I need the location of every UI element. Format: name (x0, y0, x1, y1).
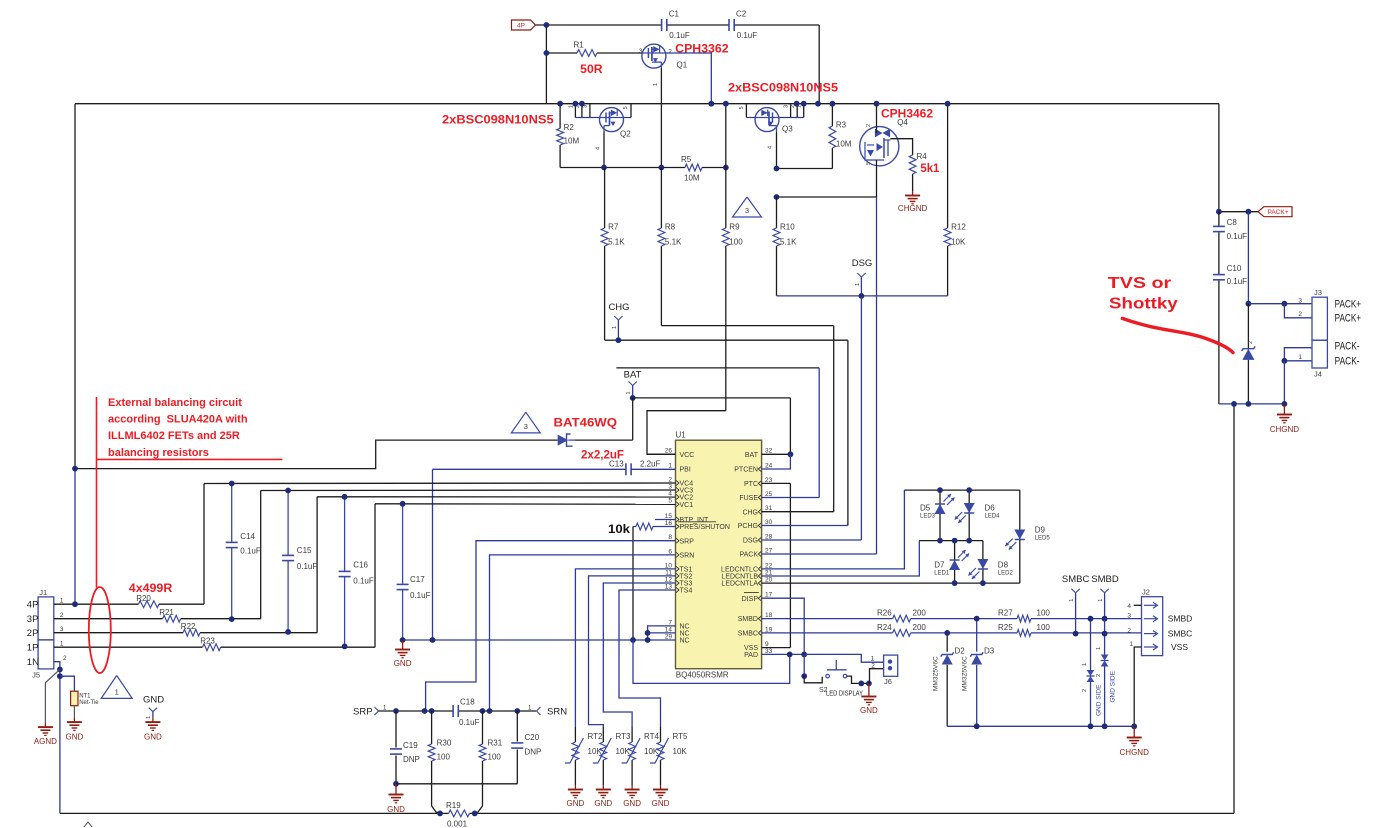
svg-text:DSG: DSG (852, 258, 873, 269)
svg-text:1: 1 (60, 597, 64, 604)
resistor R5 (681, 155, 702, 183)
wire CHG row (618, 339, 848, 341)
svg-text:R22: R22 (181, 622, 196, 631)
svg-text:1: 1 (1298, 354, 1302, 361)
wire C8 C10 column (1218, 212, 1220, 227)
svg-text:R24: R24 (877, 623, 892, 632)
svg-text:R31: R31 (488, 739, 503, 748)
wire SRN from chip (490, 555, 676, 711)
wire diode to BAT stub (576, 439, 633, 441)
svg-text:3: 3 (745, 206, 749, 215)
net stub GND mid (143, 695, 164, 720)
svg-text:4: 4 (768, 146, 774, 149)
thermistor RT2 (565, 732, 603, 763)
resistor R21 (159, 608, 181, 622)
wire TS1 (575, 569, 675, 727)
svg-text:31: 31 (765, 505, 773, 512)
wire C19 branch (395, 711, 397, 748)
resistor R4 (909, 152, 927, 174)
ground GND under RT3 (594, 785, 612, 808)
svg-text:4: 4 (1127, 603, 1131, 610)
wire D6 branch (968, 490, 970, 540)
annotation red vertical line (96, 397, 98, 588)
svg-text:J3: J3 (1314, 288, 1322, 297)
svg-text:1: 1 (115, 687, 119, 696)
svg-text:PACK-: PACK- (1335, 341, 1360, 353)
svg-text:GND: GND (860, 706, 878, 715)
svg-text:1: 1 (626, 391, 632, 394)
wire SMBC line (762, 632, 893, 634)
svg-text:0.1uF: 0.1uF (1227, 232, 1248, 241)
svg-text:1: 1 (60, 640, 64, 647)
svg-text:C8: C8 (1227, 218, 1238, 227)
svg-text:BQ4050RSMR: BQ4050RSMR (676, 671, 729, 680)
svg-text:R19: R19 (446, 801, 461, 810)
svg-text:TS2: TS2 (680, 574, 693, 581)
wire J2 pin1 VSS (1134, 647, 1141, 726)
IC U1 DISP overline (744, 592, 759, 594)
wire TS3 (603, 583, 675, 727)
resistor R27 (998, 609, 1050, 623)
wire DISP (762, 598, 805, 654)
LED D8 (968, 559, 1013, 579)
wire R3 column (831, 104, 833, 126)
annotation red ellipse (89, 587, 111, 673)
svg-text:LED5: LED5 (1035, 536, 1051, 542)
wire D3 drop (976, 619, 978, 652)
svg-text:2P: 2P (27, 628, 39, 639)
svg-text:CHG: CHG (742, 509, 758, 516)
resistor R2 (557, 123, 580, 146)
svg-text:GND: GND (394, 659, 412, 668)
wire 1P pin line (54, 646, 203, 648)
svg-text:VC4: VC4 (680, 481, 694, 488)
svg-text:J4: J4 (1314, 370, 1322, 379)
svg-text:R21: R21 (159, 608, 174, 617)
svg-text:D2: D2 (955, 647, 966, 656)
wire SRP from chip (426, 541, 676, 711)
svg-text:5: 5 (866, 162, 872, 165)
svg-text:1P: 1P (27, 643, 39, 654)
svg-text:TS3: TS3 (680, 581, 693, 588)
ground CHGND right (1133, 726, 1135, 733)
connector J3 (1298, 288, 1327, 340)
svg-text:VC2: VC2 (680, 495, 694, 502)
svg-text:LED4: LED4 (985, 514, 1001, 520)
wire Q3 source down (776, 132, 778, 169)
ground CHGND under R4 (898, 191, 928, 213)
svg-text:GND: GND (623, 799, 641, 808)
wire Q1 drain to bus (666, 53, 711, 104)
wire 1P stair (374, 504, 376, 647)
wire R8 column (660, 168, 662, 229)
svg-text:100: 100 (437, 753, 451, 762)
svg-text:TS4: TS4 (680, 588, 693, 595)
wire D2 drop (946, 633, 948, 652)
svg-text:NT1: NT1 (79, 693, 91, 699)
svg-text:Q2: Q2 (620, 130, 631, 139)
wire LEDCNTLA rail (762, 582, 1020, 584)
svg-text:3: 3 (60, 626, 64, 633)
svg-text:LEDCNTLC: LEDCNTLC (721, 567, 758, 574)
wire gnd row under C19 (396, 783, 517, 785)
wire R10 column (776, 197, 778, 228)
resistor R19 shunt (440, 801, 475, 828)
ground GND mid (144, 718, 162, 742)
net stub SRP (353, 706, 387, 718)
ground GND under C19 (395, 784, 397, 790)
svg-text:2: 2 (1248, 341, 1254, 344)
svg-text:0.1uF: 0.1uF (459, 718, 480, 727)
svg-text:0.1uF: 0.1uF (1227, 277, 1248, 286)
wire source node row (604, 167, 685, 169)
wire VC3 line (261, 489, 676, 492)
svg-text:2xBSC098N10NS5: 2xBSC098N10NS5 (442, 112, 554, 126)
wire LEDCNTLB (762, 541, 920, 576)
svg-text:R25: R25 (998, 623, 1013, 632)
svg-text:50R: 50R (580, 62, 603, 76)
wire RT3 column (602, 727, 604, 742)
wire main top bus (75, 103, 1219, 105)
diode D1 BAT46WQ (558, 434, 576, 446)
diode D4 TVS (1242, 341, 1256, 360)
svg-text:1: 1 (146, 716, 152, 719)
capacitor C19 (390, 741, 420, 764)
svg-text:AGND: AGND (34, 737, 57, 746)
wire RT4 column (631, 727, 633, 742)
capacitor C1 (662, 10, 690, 41)
capacitor C13 (609, 460, 661, 476)
wire to J3 pin2 (1284, 304, 1312, 318)
switch S2 LED DISPLAY (804, 660, 863, 698)
wire CHG pin (762, 511, 834, 513)
svg-text:R27: R27 (998, 609, 1013, 618)
svg-text:SMBD: SMBD (1168, 614, 1193, 624)
wire TVS to rail (1247, 360, 1249, 404)
svg-text:Q1: Q1 (677, 60, 688, 69)
svg-text:J1: J1 (39, 588, 47, 597)
ground GND under NT1 (66, 718, 84, 742)
svg-text:5: 5 (623, 106, 629, 109)
wire BAT stub to diode (632, 398, 634, 440)
svg-text:2: 2 (1127, 628, 1131, 635)
svg-text:D6: D6 (985, 504, 996, 513)
resistor R8 (658, 223, 682, 247)
wire 2P pin line (54, 632, 183, 634)
svg-text:DISP: DISP (742, 596, 759, 603)
wire D8 branch (982, 541, 984, 584)
svg-text:CHGND: CHGND (1120, 748, 1150, 757)
ground GND under RT5 (652, 785, 670, 808)
wire 10k drop (632, 527, 634, 641)
net flag PACK+ (1258, 207, 1292, 217)
wire R7 column (604, 168, 606, 229)
svg-text:2: 2 (1096, 674, 1102, 677)
wire D5 branch (939, 490, 941, 540)
symbol triangle 1 (101, 676, 132, 699)
svg-text:SRP: SRP (680, 538, 695, 545)
net tie NT1 (71, 691, 100, 706)
capacitor C18 (453, 698, 479, 728)
svg-text:PACK+: PACK+ (1267, 209, 1288, 216)
wire BTP stub (655, 519, 676, 521)
svg-text:LED DISPLAY: LED DISPLAY (826, 689, 863, 698)
wire PCHG pin drop (847, 340, 849, 525)
svg-text:CHGND: CHGND (898, 204, 928, 213)
svg-text:10K: 10K (644, 747, 659, 756)
wire 4P flag to bus (545, 25, 547, 104)
wire VC1 line (375, 503, 676, 506)
svg-text:GND SIDE: GND SIDE (1096, 684, 1103, 716)
wire C13 drop (432, 469, 434, 640)
wire bus to R5 right column (725, 104, 727, 168)
transistor Q3 (755, 108, 793, 134)
ground GND under S2 (868, 683, 870, 692)
svg-text:PTC: PTC (744, 481, 758, 488)
transistor Q3 pin bracket (779, 104, 804, 118)
wire LED top rail (904, 489, 1019, 491)
svg-text:BTP_INT: BTP_INT (680, 517, 710, 524)
svg-text:SMBC: SMBC (1062, 574, 1090, 585)
wire 4P stair (203, 484, 205, 605)
transistor Q4 (860, 118, 909, 166)
svg-text:10K: 10K (951, 238, 966, 247)
svg-text:R26: R26 (877, 609, 892, 618)
svg-text:LED2: LED2 (998, 571, 1014, 577)
svg-text:2.2uF: 2.2uF (640, 460, 661, 469)
svg-text:2x2,2uF: 2x2,2uF (581, 448, 624, 462)
wire R31 branch (482, 711, 484, 744)
svg-text:0.1uF: 0.1uF (737, 31, 758, 40)
svg-text:3P: 3P (27, 614, 39, 625)
svg-text:J6: J6 (884, 677, 892, 686)
wire R1 gate line (546, 52, 577, 54)
wire 4P to diode (75, 440, 558, 469)
wire NT1 to gnd (73, 706, 75, 718)
svg-text:ILLML6402 FETs and 25R: ILLML6402 FETs and 25R (108, 430, 240, 442)
svg-text:R9: R9 (729, 223, 740, 232)
ground AGND (34, 723, 57, 746)
wire PAD stub (762, 653, 805, 655)
svg-text:16: 16 (665, 520, 673, 527)
svg-text:C18: C18 (460, 698, 475, 707)
diode ESD1 GND SIDE (1082, 663, 1103, 716)
wire 3P pin line (54, 618, 163, 620)
wire SMBD line (762, 618, 893, 620)
wire Q3 drain riser (745, 104, 747, 118)
svg-text:C2: C2 (736, 10, 747, 19)
wire Q1 source down (660, 68, 662, 167)
svg-text:R3: R3 (836, 121, 847, 130)
LED D9 (1005, 526, 1050, 550)
wire DSG pin (762, 539, 862, 541)
svg-text:4P: 4P (517, 23, 525, 30)
svg-text:D7: D7 (934, 561, 945, 570)
wire VC2 line (317, 496, 675, 498)
symbol triangle 3 upper (733, 197, 762, 217)
wire BAT pin (762, 453, 791, 455)
wire DSG pin drop (860, 296, 862, 540)
resistor R1 (574, 41, 598, 57)
svg-text:2: 2 (1298, 311, 1302, 318)
svg-text:2: 2 (60, 612, 64, 619)
symbol triangle 3 lower (511, 412, 540, 433)
wire PTCEN pin (762, 454, 791, 469)
svg-text:RT4: RT4 (644, 732, 660, 741)
svg-text:C10: C10 (1227, 264, 1242, 273)
svg-text:4: 4 (596, 147, 602, 150)
svg-text:PACK-: PACK- (1335, 356, 1360, 368)
svg-text:Shottky: Shottky (1109, 296, 1178, 313)
svg-text:2: 2 (1082, 689, 1088, 692)
svg-text:R20: R20 (136, 594, 151, 603)
wire PBI line and C13 (433, 468, 626, 470)
wire CHG pin drop (833, 326, 835, 512)
svg-text:LEDCNTLB: LEDCNTLB (721, 574, 758, 581)
svg-text:3: 3 (639, 48, 643, 55)
svg-text:5: 5 (739, 106, 745, 109)
svg-text:GND: GND (594, 799, 612, 808)
svg-text:CHGND: CHGND (1270, 425, 1300, 434)
ground CHGND pack (1283, 404, 1285, 410)
svg-text:5.1K: 5.1K (665, 238, 682, 247)
wire SMBD esd drop (1090, 619, 1092, 670)
LED D7 (934, 550, 969, 577)
wire C20 branch (516, 711, 518, 742)
wire J6 pin2 (870, 669, 884, 684)
wire RT5 column (660, 727, 662, 742)
annotation red underline (97, 458, 283, 460)
wire right edge down to PACK+ (1218, 104, 1220, 212)
svg-text:1: 1 (668, 462, 672, 469)
resistor R9 (722, 223, 743, 247)
svg-text:4x499R: 4x499R (129, 581, 173, 595)
svg-text:VC1: VC1 (680, 502, 694, 509)
svg-text:SRP: SRP (353, 706, 373, 717)
labels J1 pins (27, 597, 67, 668)
svg-text:0.1uF: 0.1uF (240, 547, 261, 556)
svg-text:MM3Z5V6C: MM3Z5V6C (962, 656, 969, 691)
annotation text external balancing (108, 397, 248, 459)
svg-text:100: 100 (1037, 609, 1051, 618)
svg-text:2: 2 (871, 663, 875, 670)
wire R30 branch (431, 711, 433, 744)
wire TVS drop (1247, 304, 1249, 349)
wire J3 feed (1247, 212, 1249, 304)
wire R2 column (559, 104, 561, 129)
wire left edge 4P column (74, 104, 76, 469)
svg-text:R1: R1 (574, 41, 585, 50)
IC U1 BQ4050RSMR body (676, 431, 762, 680)
wire D7 branch (954, 541, 956, 584)
svg-text:1: 1 (1082, 663, 1088, 666)
capacitor C15 (282, 491, 317, 632)
wire TS2 (589, 576, 676, 727)
diode D2 MM3Z5V6C (933, 647, 966, 692)
IC U1 right pin labels (721, 448, 773, 659)
svg-text:PRES/SHUTON: PRES/SHUTON (680, 524, 730, 531)
svg-text:1: 1 (653, 83, 659, 86)
svg-text:SRN: SRN (680, 553, 695, 560)
svg-text:1: 1 (1069, 599, 1075, 602)
svg-text:0.001: 0.001 (447, 820, 468, 828)
svg-text:SMBD: SMBD (1091, 574, 1119, 585)
wire bottom rail (60, 812, 440, 814)
svg-text:External balancing circuit: External balancing circuit (108, 397, 242, 409)
svg-text:0.1uF: 0.1uF (410, 591, 431, 600)
transistor Q2 (600, 108, 632, 139)
connector J1 box (38, 588, 54, 640)
resistor R3 (829, 121, 852, 149)
svg-text:2xBSC098N10NS5: 2xBSC098N10NS5 (728, 81, 838, 95)
resistor R12 (944, 223, 966, 247)
wire 2P stair (316, 497, 318, 633)
resistor R26 (877, 609, 926, 623)
wire LED middle rail (919, 540, 983, 542)
wire TS4 (619, 590, 676, 727)
svg-text:3: 3 (1298, 297, 1302, 304)
svg-text:5k1: 5k1 (920, 161, 939, 175)
svg-text:D9: D9 (1035, 526, 1046, 535)
svg-text:DNP: DNP (403, 755, 420, 764)
svg-text:R4: R4 (917, 152, 928, 161)
svg-text:10K: 10K (588, 747, 603, 756)
svg-text:R2: R2 (564, 123, 575, 132)
svg-text:VC3: VC3 (680, 488, 694, 495)
wire J2 pin4 stub (1134, 604, 1142, 606)
wire RT2 column (574, 727, 576, 742)
svg-text:D5: D5 (920, 504, 931, 513)
svg-text:according SLUA420A with: according SLUA420A with (108, 414, 248, 426)
svg-text:DNP: DNP (525, 748, 542, 757)
svg-text:1: 1 (871, 656, 875, 663)
wire Q2 drain riser (624, 117, 632, 119)
wire PCHG pin (762, 525, 848, 527)
svg-text:LEDCNTLA: LEDCNTLA (721, 581, 758, 588)
svg-text:R7: R7 (608, 223, 619, 232)
wire VC4 line (204, 482, 676, 485)
capacitor C14 (226, 484, 261, 620)
svg-text:MM3Z5V6C: MM3Z5V6C (933, 656, 940, 691)
net flag 4P (512, 20, 536, 30)
svg-text:PBI: PBI (680, 467, 691, 474)
svg-text:C17: C17 (410, 575, 425, 584)
resistor R 10k PRES pulldown (633, 523, 676, 530)
svg-text:100: 100 (729, 238, 743, 247)
wire switch to gnd node (847, 676, 869, 683)
wire NT1 branch (60, 676, 75, 691)
svg-text:Q3: Q3 (782, 125, 793, 134)
resistor R24 (877, 623, 926, 636)
wire DISP node (801, 652, 807, 658)
wire 4P pin line (54, 603, 139, 605)
svg-text:1: 1 (1096, 647, 1102, 650)
svg-text:200: 200 (913, 623, 927, 632)
svg-text:10K: 10K (616, 747, 631, 756)
svg-text:NC: NC (680, 631, 690, 638)
svg-text:C19: C19 (403, 741, 418, 750)
IC U1 left pin labels (665, 448, 730, 645)
svg-text:NC: NC (680, 638, 690, 645)
wire VCC stub (647, 453, 676, 455)
svg-text:J2: J2 (1142, 588, 1150, 597)
LED D5 (920, 494, 955, 520)
diode ESD2 GND SIDE (1096, 647, 1117, 703)
wire Q4 source row to PACK drop (777, 196, 877, 198)
wire C2 to bus drop (818, 25, 820, 104)
wire Q4 column (876, 104, 878, 133)
wire R4 to CHGND (912, 174, 914, 191)
